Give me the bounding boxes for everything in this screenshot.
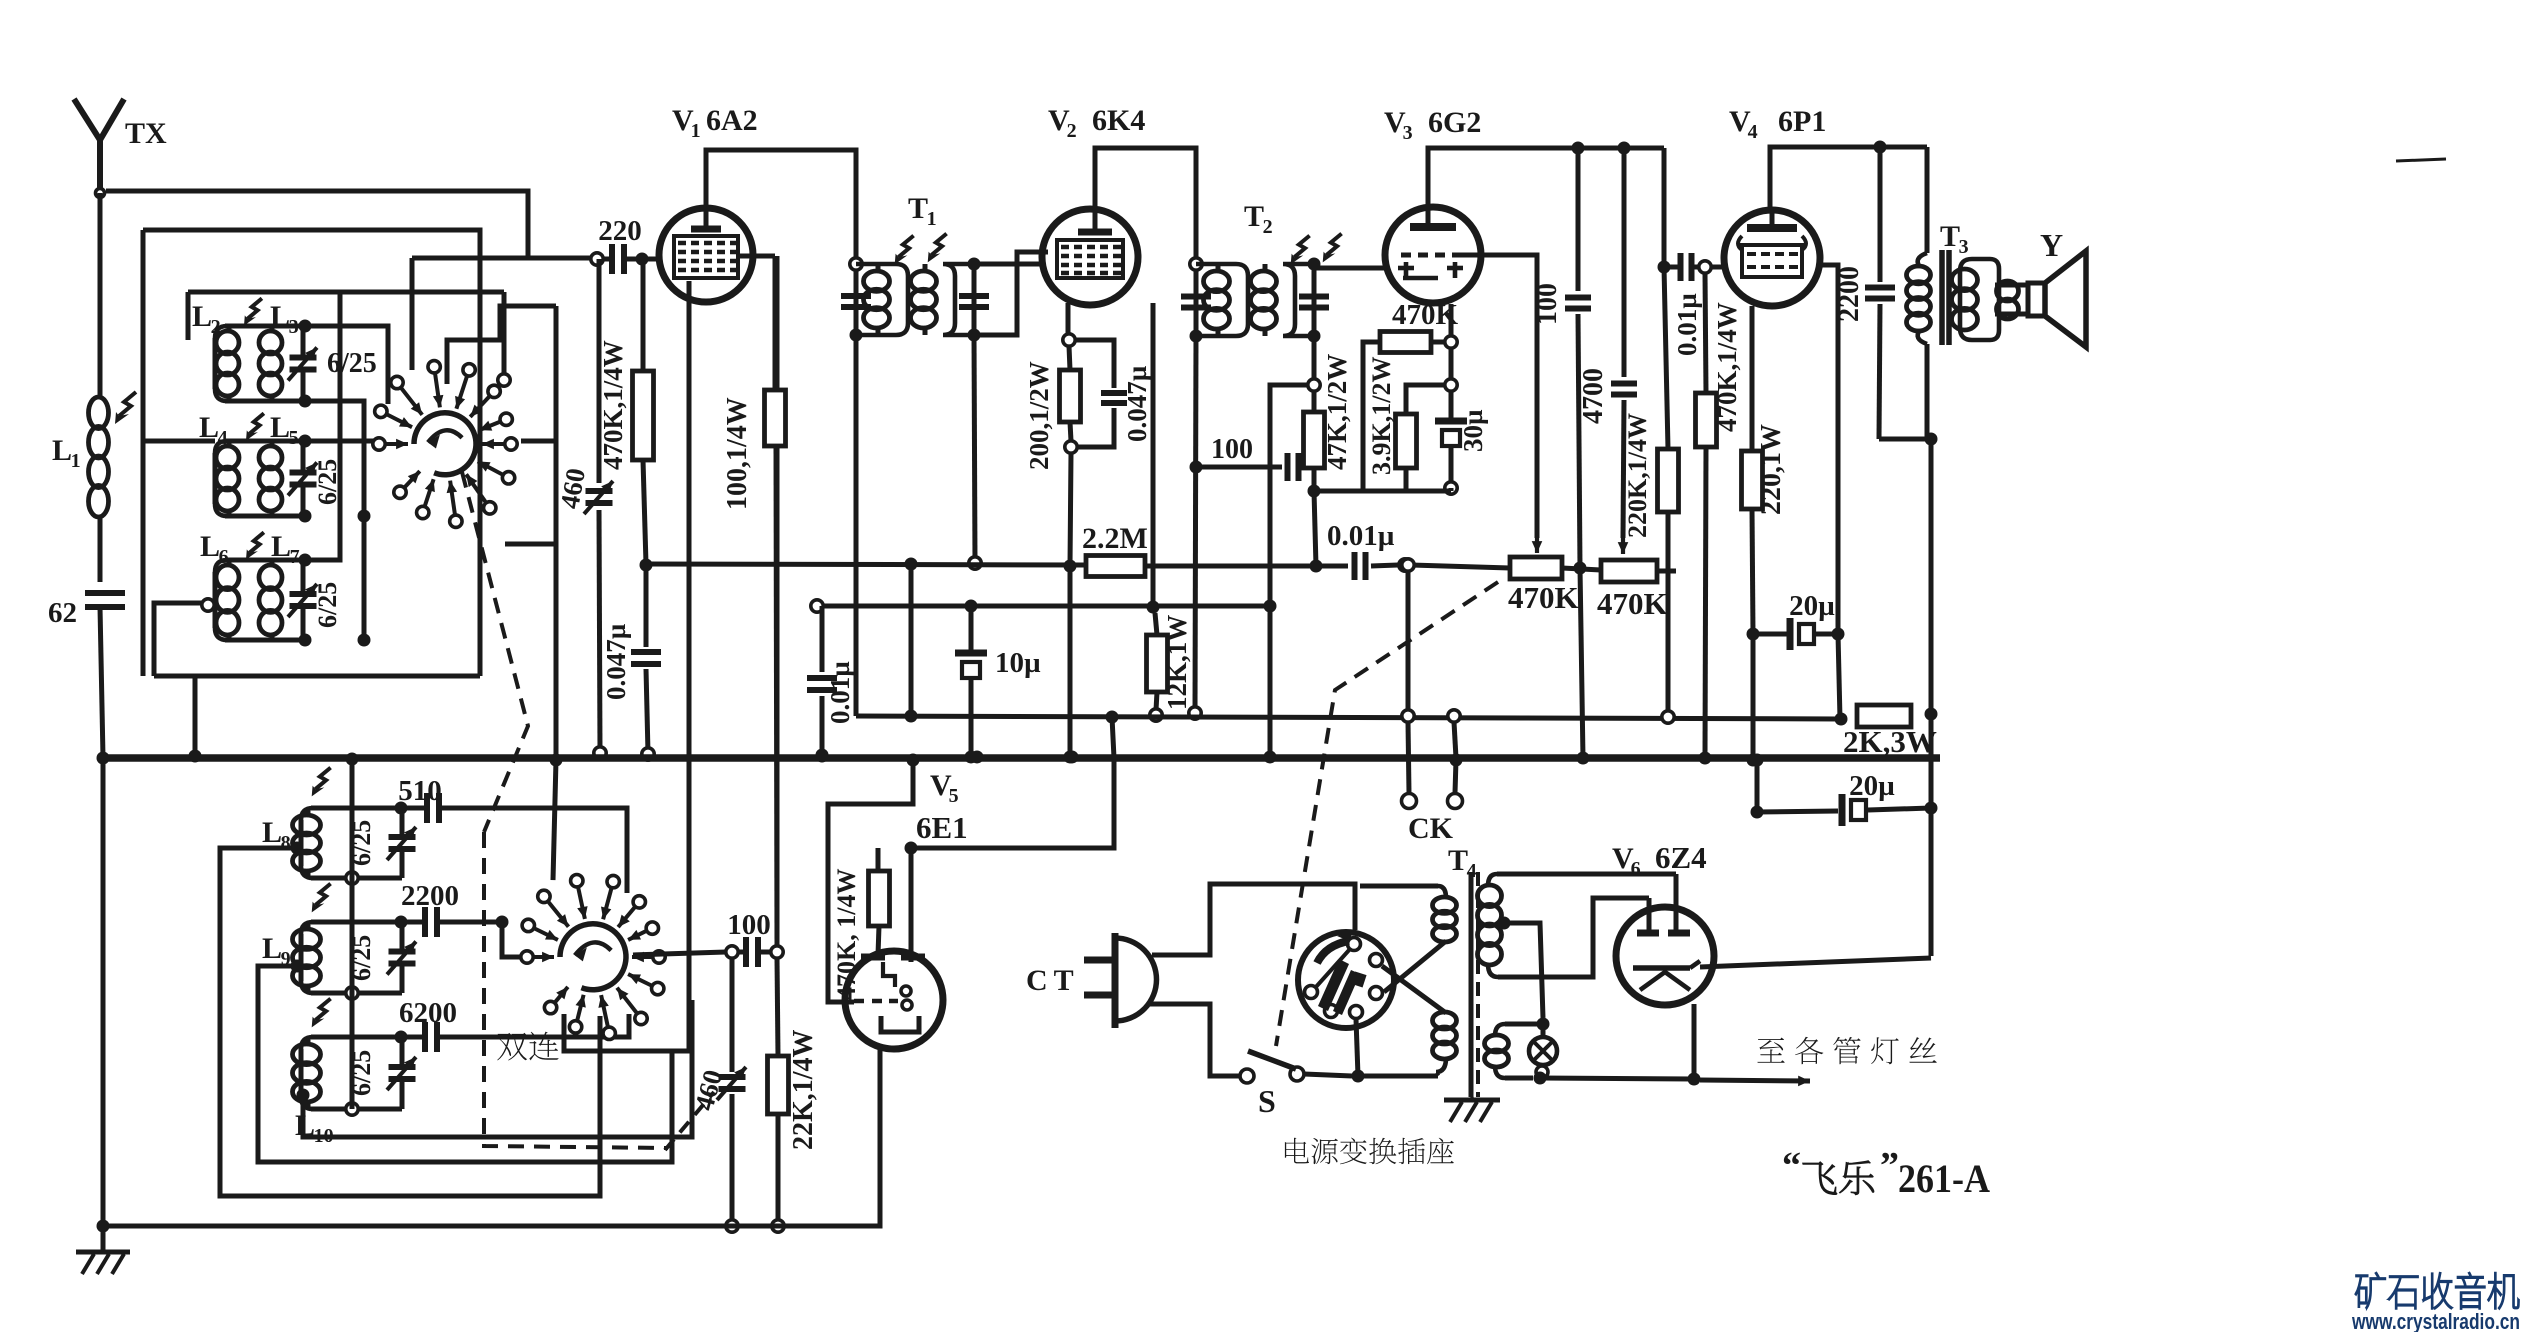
svg-text:T: T bbox=[1940, 220, 1960, 253]
label 3.9K bbox=[1367, 357, 1396, 475]
label 470K V5 bbox=[832, 869, 861, 1000]
svg-text:7: 7 bbox=[290, 546, 300, 568]
wire band box bbox=[143, 230, 480, 676]
label L5 bbox=[270, 411, 299, 449]
wire HV top to plate bbox=[1497, 872, 1676, 877]
watermark bbox=[2351, 1273, 2520, 1332]
wire V1 plate bbox=[706, 150, 856, 262]
wire V2 k to gnd bbox=[1064, 453, 1077, 764]
label V4 6P1 bbox=[1729, 105, 1826, 143]
ground bbox=[76, 1226, 130, 1274]
label T2 bbox=[1244, 200, 1273, 238]
svg-text:2K,3W: 2K,3W bbox=[1843, 724, 1937, 759]
label L1 bbox=[52, 434, 81, 472]
label 6/25 row2 bbox=[313, 459, 342, 505]
svg-text:30µ: 30µ bbox=[1458, 409, 1488, 452]
resistor 22K bbox=[768, 958, 789, 1232]
svg-text:3: 3 bbox=[1959, 236, 1969, 258]
wire row3 top bbox=[305, 292, 340, 560]
svg-text:2: 2 bbox=[211, 316, 221, 338]
ground bus bbox=[103, 754, 1940, 762]
adjust arrow L10 bbox=[312, 999, 331, 1028]
svg-text:0.047µ: 0.047µ bbox=[1122, 365, 1152, 442]
label CK bbox=[1408, 812, 1454, 845]
wire T1 sec bottom bbox=[969, 335, 981, 569]
wire bus to S1b contact bbox=[553, 760, 556, 880]
svg-text:12K,1W: 12K,1W bbox=[1162, 615, 1192, 710]
T4 primary upper bbox=[1360, 886, 1457, 942]
wire V3 plate bbox=[1428, 148, 1664, 207]
svg-text:6200: 6200 bbox=[399, 997, 457, 1029]
svg-text:6/25: 6/25 bbox=[327, 348, 377, 379]
svg-text:20µ: 20µ bbox=[1849, 770, 1895, 802]
wire bottom line bbox=[103, 1049, 880, 1226]
label 4700 bbox=[1578, 368, 1609, 424]
capacitor 30u bbox=[1435, 391, 1467, 494]
label 100 osc bbox=[727, 909, 771, 941]
speaker Y bbox=[1995, 251, 2086, 347]
junction bbox=[1572, 142, 1585, 155]
wire det bottom bbox=[1314, 488, 1451, 491]
adjust arrow T2 a bbox=[1291, 236, 1310, 265]
svg-text:510: 510 bbox=[398, 775, 442, 807]
wire V6 heater bbox=[1692, 1004, 1697, 1079]
svg-text:47K,1/2W: 47K,1/2W bbox=[1322, 354, 1352, 470]
svg-text:”: ” bbox=[1880, 1145, 1899, 1187]
svg-text:0.047µ: 0.047µ bbox=[601, 623, 631, 700]
switch S bbox=[1240, 1051, 1352, 1083]
label 10u bbox=[995, 647, 1041, 679]
label TX bbox=[125, 117, 167, 150]
IF transformer T1 bbox=[841, 258, 989, 342]
label 20u cathode bbox=[1789, 590, 1835, 622]
svg-text:CK: CK bbox=[1408, 812, 1454, 845]
svg-text:6A2: 6A2 bbox=[706, 104, 758, 137]
wire avc-to-B+ bbox=[905, 564, 918, 723]
wire H3 to 220 cap bbox=[412, 256, 597, 261]
svg-text:L: L bbox=[270, 411, 290, 444]
svg-text:3: 3 bbox=[1403, 122, 1413, 144]
svg-text:6: 6 bbox=[1631, 858, 1641, 880]
IF transformer T2 bbox=[1181, 258, 1329, 343]
svg-text:5: 5 bbox=[289, 427, 299, 449]
svg-text:Y: Y bbox=[2040, 227, 2063, 263]
label 6/25 row3 bbox=[313, 582, 342, 628]
wire T1 sec to V2 cathode bbox=[974, 252, 1048, 335]
label 2.2M bbox=[1082, 522, 1148, 555]
label T4 bbox=[1448, 844, 1477, 882]
junction bbox=[550, 754, 563, 767]
svg-text:L: L bbox=[52, 434, 72, 467]
wire row upper right bbox=[447, 306, 556, 384]
T4 HV tap bbox=[1498, 917, 1544, 1019]
label L8 bbox=[262, 816, 291, 854]
wire row1 top bbox=[305, 326, 388, 404]
label 12K bbox=[1162, 615, 1192, 710]
svg-text:470K: 470K bbox=[1597, 586, 1668, 621]
wire H3 drop to contact bbox=[410, 258, 415, 370]
resistor 470K V1 bbox=[633, 259, 654, 564]
label 2200 osc bbox=[401, 880, 459, 912]
output transformer T3 bbox=[1907, 147, 2029, 439]
svg-text:20µ: 20µ bbox=[1789, 590, 1835, 622]
tube V4 6P1 bbox=[1724, 210, 1820, 306]
label T1 bbox=[908, 192, 937, 230]
svg-text:4: 4 bbox=[1748, 121, 1758, 143]
wire plug bottom bbox=[1150, 1004, 1241, 1076]
resistor 470K V4 bbox=[1696, 273, 1717, 765]
svg-text:L: L bbox=[271, 530, 291, 563]
resistor 47K bbox=[1304, 391, 1325, 498]
svg-text:220: 220 bbox=[598, 215, 642, 247]
junction bbox=[1066, 751, 1079, 764]
capacitor 0.047u V2 bbox=[1075, 340, 1127, 447]
adjust arrow L9 bbox=[312, 884, 331, 913]
wire T2 avc branch bbox=[1264, 385, 1309, 764]
socket 电源变换插座 bbox=[1298, 932, 1394, 1028]
wire B+ riser bbox=[1929, 440, 1934, 956]
coil pair L4 L5 bbox=[215, 435, 371, 523]
wire sw2 right to 100pF bbox=[633, 952, 726, 955]
adjust arrow T1 b bbox=[928, 234, 947, 263]
label 100 T2 bbox=[1211, 434, 1253, 465]
wire inner H bbox=[188, 292, 510, 386]
resistor 470K V3 bbox=[1363, 332, 1457, 492]
label 电源变换插座 bbox=[1285, 1138, 1454, 1165]
svg-text:L: L bbox=[192, 300, 212, 333]
wire Vx bbox=[917, 717, 1114, 848]
capacitor 0.047u AVC bbox=[631, 559, 661, 761]
label 6/25 L9 bbox=[347, 935, 376, 981]
label L7 bbox=[271, 530, 300, 568]
T4 filament winding bbox=[1485, 1024, 1538, 1078]
svg-text:0.01µ: 0.01µ bbox=[1327, 520, 1395, 552]
svg-text:220K,1/4W: 220K,1/4W bbox=[1623, 413, 1652, 538]
tube V6 6Z4 bbox=[1616, 907, 1714, 1005]
wire x556 branch bbox=[505, 441, 556, 544]
label V1 6A2 bbox=[672, 104, 758, 142]
svg-text:L: L bbox=[262, 816, 282, 849]
label 2K 3W bbox=[1843, 724, 1937, 759]
svg-text:6E1: 6E1 bbox=[916, 810, 968, 845]
resistor 2K 3W bbox=[1835, 705, 1938, 727]
svg-text:T: T bbox=[908, 192, 928, 225]
junction bbox=[346, 753, 359, 766]
label 510 bbox=[398, 775, 442, 807]
svg-text:S: S bbox=[1258, 1083, 1276, 1119]
label V2 6K4 bbox=[1048, 104, 1145, 142]
label 6/25 L10 bbox=[347, 1050, 376, 1096]
svg-text:6Z4: 6Z4 bbox=[1655, 840, 1707, 875]
svg-text:4700: 4700 bbox=[1578, 368, 1609, 424]
label 470K volume bbox=[1508, 580, 1579, 615]
label 6/25 row1 bbox=[327, 348, 377, 379]
wire V2 plate bbox=[1095, 148, 1196, 258]
wire left ground drop bbox=[101, 757, 106, 1226]
label 460 osc bbox=[689, 1067, 728, 1114]
svg-text:220,1W: 220,1W bbox=[1756, 424, 1787, 515]
capacitor 100 T2 bbox=[1190, 453, 1313, 481]
svg-text:2: 2 bbox=[1263, 216, 1273, 238]
wire antenna top bbox=[106, 191, 528, 258]
label 6/25 L8 bbox=[347, 820, 376, 866]
svg-text:470K,1/4W: 470K,1/4W bbox=[598, 340, 628, 470]
wire det junction bbox=[1310, 491, 1323, 573]
label 飞乐 261-A bbox=[1782, 1145, 1990, 1201]
potentiometer 470K tone bbox=[1562, 560, 1676, 582]
wire T1 pri bottom bbox=[854, 335, 859, 716]
svg-text:3.9K,1/2W: 3.9K,1/2W bbox=[1367, 357, 1396, 475]
adjust arrow L8 bbox=[312, 768, 331, 797]
adjust arrow bbox=[246, 413, 264, 440]
label V5 bbox=[930, 769, 959, 807]
adjust arrow T1 a bbox=[895, 236, 914, 265]
label 0.047u AVC bbox=[601, 623, 631, 700]
wire HV bottom to plate bbox=[1498, 898, 1649, 977]
label L10 bbox=[295, 1109, 334, 1147]
resistor 12K bbox=[1147, 613, 1168, 721]
svg-text:100: 100 bbox=[1532, 283, 1563, 325]
svg-text:470K: 470K bbox=[1508, 580, 1579, 615]
coil pair L2 L3 bbox=[215, 320, 317, 408]
label 470K tone bbox=[1597, 586, 1668, 621]
svg-text:2200: 2200 bbox=[1834, 266, 1865, 322]
svg-text:100: 100 bbox=[727, 909, 771, 941]
wire line606 bbox=[811, 600, 1277, 613]
capacitor 62 bbox=[85, 593, 125, 757]
label 0.01u V4 bbox=[1672, 293, 1702, 356]
svg-text:www.crystalradio.cn: www.crystalradio.cn bbox=[2351, 1309, 2520, 1332]
wire gnd vol bbox=[1577, 568, 1590, 765]
dashed link pot to S bbox=[1276, 582, 1498, 1046]
wire V6 plate1 bbox=[1647, 898, 1652, 931]
capacitor 10u bbox=[955, 600, 987, 764]
svg-text:8: 8 bbox=[281, 832, 291, 854]
wire B+ line bbox=[856, 716, 1841, 719]
junction bbox=[1106, 711, 1119, 724]
wire V4 screen bbox=[1818, 265, 1845, 719]
capacitor 0.01u det bbox=[1316, 552, 1510, 580]
wire CK left bbox=[1402, 559, 1417, 809]
junction bbox=[189, 750, 202, 763]
label 6E1 bbox=[916, 810, 968, 845]
wire T2 sec top to V3 bbox=[1314, 266, 1388, 271]
label 双连 bbox=[497, 1032, 559, 1061]
wire L10 tap loop bbox=[303, 1000, 692, 1137]
coil L10 bbox=[293, 1031, 417, 1116]
label V6 6Z4 bbox=[1612, 840, 1707, 880]
svg-text:4: 4 bbox=[218, 427, 228, 449]
wire L9 tap loop bbox=[258, 966, 672, 1162]
label 470K V3 bbox=[1392, 299, 1459, 331]
dashed link to 460 bbox=[665, 1092, 714, 1150]
svg-text:L: L bbox=[200, 530, 220, 563]
capacitor 2200 out bbox=[1865, 147, 1938, 446]
svg-text:62: 62 bbox=[48, 597, 77, 629]
svg-text:CT: CT bbox=[1026, 964, 1080, 997]
svg-text:470K,1/4W: 470K,1/4W bbox=[1712, 302, 1742, 432]
label L4 bbox=[199, 411, 228, 449]
label 62 bbox=[48, 597, 77, 629]
wire L8 tap loop bbox=[220, 848, 600, 1196]
label 至各管灯丝 bbox=[1757, 1037, 1936, 1065]
junction bbox=[971, 751, 984, 764]
svg-text:L: L bbox=[262, 932, 282, 965]
adjust arrow bbox=[244, 298, 262, 325]
resistor 470K V5 bbox=[869, 848, 890, 955]
wire T2 pri bottom bbox=[1189, 336, 1201, 719]
capacitor 0.01u V1 bbox=[807, 606, 837, 762]
junction bbox=[1874, 141, 1887, 154]
capacitor 100 osc bbox=[726, 937, 783, 967]
svg-text:“: “ bbox=[1782, 1145, 1801, 1187]
stray mark bbox=[2396, 159, 2446, 161]
wire V3 grid out bbox=[1461, 255, 1542, 553]
wire filament line bbox=[1540, 1073, 1701, 1086]
label 0.01u V1 bbox=[825, 661, 855, 724]
svg-text:T: T bbox=[1244, 200, 1264, 233]
coil L8 bbox=[291, 802, 417, 885]
label 100 V3 bbox=[1532, 283, 1563, 325]
wire V1 osc grid bbox=[564, 281, 689, 1051]
wire row2 mid bbox=[305, 439, 376, 444]
plug CT bbox=[1084, 933, 1157, 1028]
wire plug top bbox=[1152, 884, 1355, 955]
wire V6 cathode out bbox=[1700, 958, 1931, 967]
adjust arrow bbox=[246, 532, 264, 559]
wire AVC line bbox=[646, 564, 1086, 565]
label L3 bbox=[270, 300, 299, 338]
label T3 bbox=[1940, 220, 1969, 258]
svg-text:2.2M: 2.2M bbox=[1082, 522, 1148, 555]
tube V5 6E1 bbox=[845, 951, 943, 1049]
label 220 bbox=[598, 215, 642, 247]
label 200 V2 bbox=[1024, 361, 1054, 470]
svg-text:6/25: 6/25 bbox=[313, 582, 342, 628]
label L9 bbox=[262, 932, 291, 970]
adjust arrow T2 b bbox=[1323, 234, 1342, 263]
wire V2 screen bbox=[1147, 303, 1160, 614]
rotary switch S1a bbox=[373, 361, 517, 528]
label 47K bbox=[1322, 354, 1352, 470]
wire V5 target bbox=[905, 842, 918, 963]
label 470K V4 bbox=[1712, 302, 1742, 432]
svg-text:6K4: 6K4 bbox=[1092, 104, 1145, 137]
junction bbox=[97, 1220, 110, 1233]
junction bbox=[1618, 142, 1631, 155]
label CT bbox=[1026, 964, 1080, 997]
capacitor 4700 bbox=[1611, 148, 1637, 554]
wire osc grid drop bbox=[775, 256, 780, 945]
svg-text:100: 100 bbox=[1211, 434, 1253, 465]
label 0.047u V2 bbox=[1122, 365, 1152, 442]
adjust arrow L1 bbox=[115, 392, 136, 424]
wire T1 sec top to V2 bbox=[974, 262, 1043, 267]
dashed gang box bbox=[484, 832, 668, 1148]
svg-text:5: 5 bbox=[949, 785, 959, 807]
label 30u bbox=[1458, 409, 1488, 452]
tube V2 6K4 bbox=[1042, 209, 1138, 305]
capacitor 0.01u V4 bbox=[1670, 253, 1726, 281]
trimmer 460 RF bbox=[584, 259, 613, 759]
T4 HV winding bbox=[1478, 874, 1502, 977]
capacitor 2200 osc bbox=[401, 907, 528, 957]
svg-text:0.01µ: 0.01µ bbox=[825, 661, 855, 724]
svg-text:6P1: 6P1 bbox=[1778, 105, 1826, 138]
wire V2 k1 bbox=[1063, 303, 1075, 346]
svg-text:L: L bbox=[270, 300, 290, 333]
capacitor 510 bbox=[401, 793, 627, 893]
wire V1 grid right bbox=[738, 254, 775, 259]
coil L9 bbox=[291, 916, 417, 1000]
label 220 V4 bbox=[1756, 424, 1787, 515]
label V3 6G2 bbox=[1384, 106, 1481, 144]
resistor 3.9K bbox=[1396, 385, 1446, 491]
label 470K V1 bbox=[598, 340, 628, 470]
svg-text:6: 6 bbox=[219, 546, 229, 568]
label 460 RF bbox=[554, 466, 591, 511]
coil pair L6 L7 bbox=[215, 554, 371, 647]
svg-text:6G2: 6G2 bbox=[1428, 106, 1481, 139]
label 100 V1 bbox=[722, 397, 753, 510]
label 2200 out bbox=[1834, 266, 1865, 322]
wire osc common bbox=[350, 758, 355, 1109]
T4 ground bbox=[1444, 1097, 1500, 1122]
tube V1 6A2 bbox=[659, 208, 753, 302]
wire x556 to bus bbox=[554, 544, 559, 758]
capacitor 220 bbox=[591, 244, 661, 274]
coil L1 bbox=[89, 193, 109, 582]
resistor 200 V2 bbox=[1060, 346, 1081, 453]
T4 primary lower bbox=[1433, 1012, 1457, 1076]
label 0.01u det bbox=[1327, 520, 1395, 552]
svg-text:TX: TX bbox=[125, 117, 167, 150]
svg-text:1: 1 bbox=[71, 450, 81, 472]
label L6 bbox=[200, 530, 229, 568]
wire V3 grid chain bbox=[1445, 304, 1457, 391]
trimmer 460 osc bbox=[717, 958, 746, 1232]
junction bbox=[905, 558, 918, 571]
pilot lamp bbox=[1529, 1018, 1557, 1085]
svg-text:2200: 2200 bbox=[401, 880, 459, 912]
wire row1 bottom bbox=[305, 401, 364, 640]
resistor 220K bbox=[1658, 267, 1679, 723]
label 220K bbox=[1623, 413, 1652, 538]
wire CK right bbox=[1448, 710, 1463, 809]
svg-text:1: 1 bbox=[927, 208, 937, 230]
resistor 220 V4 bbox=[1742, 306, 1763, 767]
resistor 100 V1 bbox=[765, 256, 786, 945]
label 20u filter bbox=[1849, 770, 1895, 802]
wire V4 plate bbox=[1770, 147, 1927, 210]
wire right contact feed bbox=[521, 306, 556, 441]
label 6200 bbox=[399, 997, 457, 1029]
junction bbox=[816, 750, 829, 763]
capacitor 20u filter bbox=[1751, 754, 1938, 827]
label S bbox=[1258, 1083, 1276, 1119]
potentiometer 470K volume bbox=[1510, 557, 1587, 579]
wire V3 plate corner bbox=[1658, 148, 1671, 274]
arrow to heaters bbox=[1700, 1076, 1810, 1087]
svg-text:T: T bbox=[1448, 844, 1468, 877]
tube V3 6G2 bbox=[1385, 207, 1481, 303]
svg-text:200,1/2W: 200,1/2W bbox=[1024, 361, 1054, 470]
wire V6 plate2 bbox=[1674, 874, 1679, 931]
wire socket X1 bbox=[1382, 966, 1446, 1013]
wire rows left bbox=[143, 441, 215, 676]
label L2 bbox=[192, 300, 221, 338]
svg-text:3: 3 bbox=[289, 316, 299, 338]
